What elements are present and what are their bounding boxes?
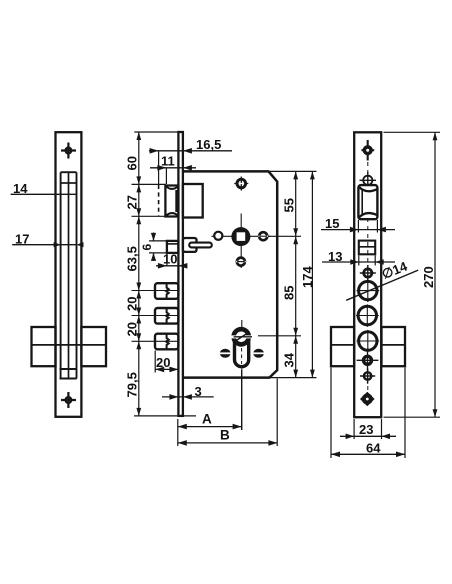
ext line latch top: [132, 183, 167, 185]
dim A arrows: [178, 424, 242, 430]
crosshair circle lower: [360, 368, 375, 383]
left channel grid line 1: [61, 182, 77, 184]
svg-text:63,5: 63,5: [125, 246, 140, 271]
spindle square hole: [237, 232, 246, 241]
outer col arrows: [310, 171, 315, 377]
dim 64 line: [331, 453, 405, 455]
left channel top edge: [61, 171, 77, 173]
aux pin pill: [189, 243, 212, 248]
left case box inner line: [32, 344, 107, 346]
ext line 16,5: [158, 151, 160, 184]
top screw black: [361, 140, 374, 161]
svg-text:64: 64: [366, 441, 381, 456]
cylinder slot line: [234, 336, 252, 338]
dia14 leader: [346, 270, 418, 300]
dim 15 arrows: [350, 227, 386, 233]
dim 23 arrows: [346, 434, 390, 440]
cylinder ring: [234, 329, 249, 344]
bolt 3 center line: [132, 340, 179, 342]
top screw hole circle: [234, 177, 248, 191]
ext line cylinder center: [258, 335, 301, 337]
ext line plate top right: [384, 131, 441, 133]
dim 17 leader: [12, 244, 76, 246]
dim 6 ext ticks: [149, 241, 167, 253]
dim 11 line: [150, 167, 196, 169]
filled circle small: [357, 350, 379, 371]
aux latch left block inner line: [167, 243, 179, 245]
svg-text:55: 55: [282, 198, 297, 212]
dashed retracted line: [158, 185, 160, 216]
screw symbol bottom-left: [61, 392, 76, 408]
hub cross circle right: [258, 232, 268, 240]
ext line A right (cylinder center): [241, 370, 243, 430]
left dim column line: [138, 132, 140, 416]
dim 11 arrows: [157, 165, 192, 171]
svg-text:23: 23: [359, 422, 373, 437]
hub cross circle bottom: [236, 258, 246, 266]
roller opening: [358, 185, 377, 219]
cylinder ring slot gap: [230, 335, 254, 338]
ext line faceplate top: [134, 131, 182, 133]
right case box inner line: [331, 344, 405, 346]
cylinder oval right: [253, 349, 264, 358]
aux latch right block: [183, 238, 197, 252]
svg-text:11: 11: [161, 153, 175, 168]
cylinder stem center dashes: [241, 348, 243, 364]
dim 10 arrows: [158, 263, 188, 269]
dim A line: [178, 426, 242, 428]
bolt 2 center line: [132, 315, 179, 317]
left channel left edge: [60, 172, 62, 378]
roller latch right thick edge: [175, 190, 178, 212]
faceplate strip: [178, 132, 183, 416]
svg-text:27: 27: [125, 195, 140, 209]
outer dim column 174: [311, 171, 313, 377]
dim 20 arrows: [155, 367, 178, 373]
hub cross circle left: [214, 232, 222, 240]
svg-text:20: 20: [125, 297, 140, 311]
svg-text:10: 10: [163, 252, 177, 267]
hole 14-3: [357, 330, 380, 353]
dim 15 ext lines: [358, 220, 377, 233]
latch housing rect: [183, 184, 203, 218]
svg-text:60: 60: [125, 156, 140, 170]
ext line B right: [276, 379, 278, 447]
svg-text:174: 174: [300, 266, 315, 288]
dim 13 line: [322, 261, 395, 263]
aux opening: [359, 241, 375, 255]
col arrows: [136, 132, 141, 416]
cylinder center line: [241, 320, 243, 430]
svg-text:270: 270: [421, 266, 436, 288]
dim 64 ext lines: [331, 368, 405, 459]
ext line A left: [177, 419, 179, 446]
ext line latch bottom: [132, 215, 167, 217]
dim 16,5 line: [149, 150, 232, 152]
lock body outline with chamfers: [183, 171, 277, 377]
crosshair circle above holes: [360, 265, 376, 281]
inner dim column: [295, 171, 297, 377]
cylinder oval left: [220, 349, 231, 358]
cylinder stem: [235, 340, 249, 367]
dim 3 arrows: [169, 394, 192, 400]
bolt block 1: [155, 283, 178, 299]
bolt block 3: [155, 334, 178, 350]
svg-text:20: 20: [125, 322, 140, 336]
left channel center line: [68, 172, 70, 378]
ext line plate bottom: [134, 415, 196, 417]
dim B arrows: [178, 440, 278, 446]
svg-text:16,5: 16,5: [196, 137, 221, 152]
bolt 1 center line: [132, 290, 179, 292]
dim 3 line: [162, 396, 214, 398]
svg-text:79,5: 79,5: [125, 372, 140, 397]
dim 270 column: [434, 132, 436, 417]
dim 14 leader: [11, 193, 77, 195]
left plate outline: [56, 132, 82, 417]
dim 20 line: [155, 368, 178, 370]
ext line plate bottom right: [384, 416, 441, 418]
dim B line: [178, 442, 278, 444]
bolt block 2: [155, 308, 178, 324]
roller latch top arc: [166, 186, 178, 189]
ext line 11: [165, 168, 167, 184]
dim 15 line: [321, 229, 395, 231]
dim 13 arrows: [350, 259, 383, 265]
svg-text:15: 15: [325, 216, 339, 231]
hole 14-1: [357, 280, 380, 303]
ext line spindle center: [268, 235, 301, 237]
svg-text:6: 6: [140, 244, 154, 251]
cylinder keyway diagonal: [237, 334, 247, 340]
dim 10 ext line: [166, 253, 168, 267]
roller latch outline: [165, 186, 178, 217]
spindle hub black disc: [231, 227, 250, 246]
left channel right edge: [76, 172, 78, 378]
bottom screw black: [360, 392, 375, 407]
dim 20 ext line: [154, 351, 156, 373]
screw hole 2 crosshair: [360, 172, 377, 189]
dim 270 arrows: [433, 132, 438, 417]
right case box right part: [382, 327, 406, 366]
dim 6 line and arrows: [153, 233, 155, 262]
right plate outline: [354, 132, 381, 417]
inner col arrows: [293, 171, 298, 377]
plate center dashed line: [367, 146, 369, 404]
screw symbol top-left: [61, 143, 76, 159]
dim 13 ext lines: [359, 256, 375, 266]
hub center lines: [212, 214, 271, 269]
dim 64 arrows: [331, 452, 405, 458]
left case box right part: [81, 327, 106, 366]
dim 17 arrow left: [54, 242, 61, 247]
aux latch left block: [167, 241, 179, 253]
dim 10 line: [156, 265, 187, 267]
svg-text:34: 34: [282, 352, 297, 367]
hole 14-2: [356, 304, 379, 327]
ext line body bottom right: [270, 377, 317, 379]
dim 23 ext lines: [354, 419, 381, 439]
left channel bottom end rect: [60, 369, 77, 379]
svg-text:A: A: [202, 412, 212, 427]
dim 16,5 arrows: [150, 148, 192, 154]
svg-text:B: B: [220, 428, 230, 443]
right case box left part: [331, 327, 354, 366]
dim 23 line: [340, 435, 396, 437]
left case box left part: [32, 327, 56, 366]
ext line body top right: [269, 170, 317, 172]
svg-text:85: 85: [282, 286, 297, 300]
dim 17 arrow right: [77, 242, 84, 247]
roller latch bottom arc: [166, 213, 178, 216]
